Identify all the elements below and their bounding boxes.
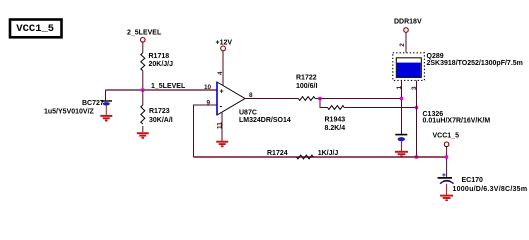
power terminal DDR18V [394, 19, 422, 33]
svg-text:R1718: R1718 [149, 53, 170, 60]
svg-text:4: 4 [217, 71, 224, 75]
ground (below BC727) [100, 116, 112, 121]
resistor R1724 1K (in bottom rail) [267, 150, 338, 159]
svg-text:2SK3918/TO252/1300pF/7.5m: 2SK3918/TO252/1300pF/7.5m [427, 60, 523, 67]
junction after R1722 (gate net / R1943) [318, 97, 321, 100]
wire feedback from - input (pin 9) down to bottom rail [194, 105, 218, 157]
svg-text:1000u/D/6.3V/8C/35m: 1000u/D/6.3V/8C/35m [453, 186, 528, 193]
svg-text:2: 2 [399, 43, 406, 47]
svg-text:+12V: +12V [216, 40, 233, 47]
svg-text:0.01uH/X7R/16V/K/M: 0.01uH/X7R/16V/K/M [423, 118, 491, 125]
svg-text:DDR18V: DDR18V [394, 19, 422, 26]
capacitor EC170 1000u electrolytic [438, 173, 528, 195]
svg-text:Q289: Q289 [427, 53, 444, 60]
power terminal +12V [216, 40, 233, 51]
junction VCC1_5 wire / bottom rail [445, 155, 448, 158]
wire op-amp output (pin 8) to R1722 [245, 98, 298, 100]
resistor R1723 30K [141, 105, 173, 124]
power terminal VCC1_5 [433, 133, 460, 147]
junction source wire / bottom rail [415, 155, 418, 158]
wire Q289 pin 3 (source) down to bottom rail [416, 81, 418, 158]
node 2_5LEVEL (net label + terminal circle) [127, 30, 162, 43]
svg-text:100/6/I: 100/6/I [296, 83, 317, 90]
resistor R1718 20K [141, 53, 173, 71]
wire VCC1_5 terminal down to EC170 [446, 147, 448, 177]
svg-text:8: 8 [249, 92, 253, 99]
svg-text:U87C: U87C [239, 110, 257, 117]
capacitor BC727 1u5 [44, 100, 112, 116]
svg-text:10: 10 [204, 84, 212, 91]
ground (below C1326) [395, 152, 408, 157]
wire op-amp pin 11 to ground [221, 112, 223, 141]
svg-text:LM324DR/SO14: LM324DR/SO14 [239, 117, 291, 124]
svg-text:20K/J/J: 20K/J/J [149, 61, 174, 68]
svg-text:1u5/Y5V010V/Z: 1u5/Y5V010V/Z [44, 109, 95, 116]
wire node 1_5LEVEL down to R1723 [142, 90, 144, 105]
svg-text:2_5LEVEL: 2_5LEVEL [127, 30, 162, 37]
resistor R1722 100 [296, 75, 317, 101]
wire junction down and across to R1943 [320, 99, 328, 108]
transistor Q289 2SK3918 TO252 [393, 53, 523, 81]
wire 2_5LEVEL terminal to R1718 [142, 42, 144, 53]
svg-text:1K/J/J: 1K/J/J [318, 150, 339, 157]
junction R1943 / source line [415, 106, 418, 109]
wire Q289 pin 1 (gate) down to C1326 [401, 81, 403, 134]
wire 1_5LEVEL down to BC727 [105, 90, 107, 100]
wire R1723 to ground [142, 126, 144, 132]
power flag box VCC1_5 (title block) [10, 20, 62, 38]
svg-text:R1724: R1724 [267, 150, 288, 157]
wire R1722 to Q289 gate node [315, 98, 401, 100]
svg-text:VCC1_5: VCC1_5 [433, 133, 460, 140]
wire DDR18V to Q289 pin 2 (drain) [405, 32, 407, 52]
svg-text:30K/A/I: 30K/A/I [149, 117, 173, 124]
svg-text:R1722: R1722 [296, 75, 317, 82]
wire net 1_5LEVEL horizontal to op-amp +input [106, 83, 218, 90]
op-amp U87C LM324DR/SO14 [217, 82, 291, 124]
ground (op-amp pin 11) [216, 142, 228, 147]
svg-text:-: - [220, 102, 223, 111]
ground (below EC170) [440, 196, 453, 201]
svg-text:BC727: BC727 [82, 100, 104, 107]
wire bottom rail (VCC1_5 net) [194, 156, 447, 158]
junction node 1_5LEVEL / R1718 / R1723 [141, 88, 144, 91]
svg-text:8.2K/4: 8.2K/4 [325, 125, 346, 132]
svg-text:1_5LEVEL: 1_5LEVEL [151, 83, 186, 90]
junction gate node / gate wire [400, 97, 403, 100]
wire R1943 to Q289 source line [344, 107, 416, 109]
ground (below R1723) [137, 133, 149, 138]
resistor R1943 8.2K [325, 106, 346, 132]
wire R1718 to node 1_5LEVEL [142, 71, 144, 90]
wire +12V to op-amp pin 4 [222, 51, 224, 86]
svg-text:EC170: EC170 [462, 177, 484, 184]
svg-text:R1723: R1723 [149, 108, 170, 115]
svg-text:+: + [220, 89, 224, 96]
svg-text:R1943: R1943 [325, 117, 346, 124]
svg-text:VCC1_5: VCC1_5 [16, 23, 54, 35]
capacitor C1326 0.01u [395, 111, 490, 151]
